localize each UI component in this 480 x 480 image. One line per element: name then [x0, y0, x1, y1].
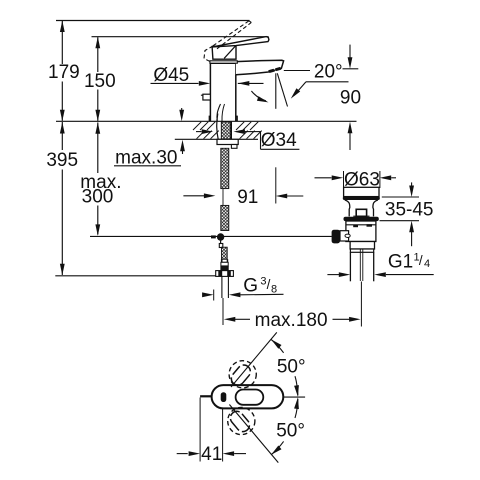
counter top line	[56, 120, 357, 122]
top view dashed swivel pod upper	[229, 361, 256, 388]
svg-text:Ø34: Ø34	[261, 130, 297, 151]
faucet body outline	[210, 63, 235, 121]
lever raised position dashed	[204, 21, 251, 62]
svg-text:300: 300	[82, 186, 114, 207]
rod junction dot	[217, 233, 224, 240]
pop-up knob tab on body	[203, 94, 211, 100]
aerator	[268, 69, 275, 73]
svg-text:179: 179	[48, 62, 80, 83]
svg-text:8: 8	[271, 283, 277, 295]
D34 leader bend	[260, 132, 262, 150]
50deg upper arc with arrows	[295, 376, 298, 395]
stream swing arc	[251, 91, 266, 101]
G3/8 extension tick	[213, 290, 215, 301]
20deg leader left	[284, 70, 310, 72]
supply hose braid middle segment	[221, 205, 229, 230]
dimension G1-1/4 arrows	[327, 274, 339, 276]
mounting nut below counter	[217, 139, 238, 144]
lever base block	[212, 45, 236, 59]
rod adjusting knob	[332, 230, 340, 244]
dimension 90 top reference tick	[343, 68, 359, 70]
50deg lower arc with arrows	[295, 399, 298, 418]
dimension 41 arrows	[177, 453, 188, 455]
50deg upper diagonal	[231, 332, 277, 387]
waste boss square	[356, 209, 366, 216]
dimension 395 line	[61, 122, 63, 150]
rod lower link	[220, 237, 222, 247]
svg-text:G1: G1	[388, 251, 413, 272]
svg-text:4: 4	[424, 258, 430, 270]
hose ferrule dark band 2	[220, 266, 228, 271]
dimension max.180 line and arrows	[224, 317, 236, 322]
svg-text:50°: 50°	[276, 421, 305, 442]
dimension max30 arrows	[181, 108, 183, 115]
pipe below nut	[221, 276, 223, 298]
dimension 179 line	[61, 21, 63, 64]
dimension 91 right arrow	[276, 194, 288, 199]
waste plug top cylinder	[344, 187, 379, 196]
svg-text:35-45: 35-45	[385, 200, 434, 221]
svg-text:41: 41	[201, 444, 222, 465]
top view aerator mark	[221, 392, 227, 402]
dimension D45 leader	[151, 82, 199, 84]
waste flange band	[344, 217, 379, 221]
dimension 41 extension lines	[199, 398, 201, 462]
svg-text:395: 395	[46, 150, 78, 171]
faucet shank through counter	[217, 114, 218, 140]
stream reference vertical line	[275, 73, 277, 109]
supply hose braid upper segment	[221, 148, 229, 188]
top view axis stub	[200, 395, 212, 397]
svg-text:max.180: max.180	[255, 310, 328, 331]
hose curve inside body	[217, 104, 221, 121]
aerator axis extension line	[275, 167, 277, 203]
waste plug rim	[343, 196, 380, 200]
dimension G3/8 arrows	[202, 292, 214, 297]
svg-text:Ø45: Ø45	[153, 65, 189, 86]
shank braid in counter	[221, 122, 230, 140]
spout outline	[236, 60, 284, 75]
20deg underline leader with arrow	[306, 81, 349, 83]
top view lever capsule	[236, 390, 264, 405]
top view axis right	[283, 396, 305, 398]
dimension reference line 179 top	[56, 20, 250, 22]
waste neck	[345, 200, 378, 216]
dimension max.300 line	[97, 123, 99, 174]
cartridge cap band	[210, 61, 237, 63]
svg-text:50°: 50°	[277, 357, 306, 378]
50deg lower diagonal	[229, 405, 278, 463]
hose ferrule dark band	[221, 259, 228, 262]
rod end tick	[211, 235, 216, 238]
waste lower body	[350, 242, 374, 250]
lever arm	[212, 37, 269, 47]
svg-text:G: G	[243, 275, 258, 296]
dimension 35-45 leaders	[382, 196, 419, 198]
dimension 90 arrows	[349, 45, 351, 58]
supply hose braid lower segment	[222, 247, 228, 259]
dimension D63 line	[315, 177, 332, 179]
counter hatching	[193, 122, 262, 139]
dimension 150 line	[97, 37, 99, 72]
stream 20deg line	[277, 73, 287, 106]
lever block diagonal	[224, 46, 235, 59]
counter bottom line	[175, 138, 258, 140]
svg-text:90: 90	[340, 87, 361, 108]
svg-text:/: /	[419, 253, 423, 268]
max180 left extension line	[222, 298, 224, 325]
max180 right extension line	[360, 282, 362, 327]
dimension 91 leader	[183, 195, 204, 197]
faucet base step	[209, 116, 237, 121]
waste tailpipe	[349, 252, 351, 281]
top view dashed swivel pod lower	[228, 407, 255, 434]
reference line at hose end (395 bottom)	[55, 275, 215, 277]
svg-text:91: 91	[237, 187, 258, 208]
svg-text:max.30: max.30	[115, 147, 177, 168]
svg-text:3: 3	[260, 275, 266, 287]
plug rod inside tailpipe	[359, 249, 361, 281]
hose break centerline	[222, 189, 224, 206]
waste upper body	[346, 221, 376, 242]
D63 extension lines	[343, 171, 345, 188]
pop-up rod line	[90, 235, 332, 237]
hose nut G3/8	[216, 271, 234, 277]
svg-text:20°: 20°	[314, 62, 343, 83]
hose ferrule white band	[221, 262, 228, 266]
svg-text:150: 150	[84, 71, 116, 92]
dimension 35-45 arrows	[411, 182, 413, 186]
top view body capsule	[212, 385, 284, 408]
dimension reference line 150 top	[92, 36, 269, 38]
dimension D34 arrows	[196, 131, 202, 133]
